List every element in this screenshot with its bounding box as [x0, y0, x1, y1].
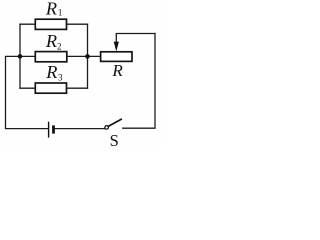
svg-text:2: 2: [57, 42, 62, 52]
svg-text:1: 1: [58, 7, 63, 17]
svg-text:R: R: [45, 62, 57, 82]
svg-text:3: 3: [58, 72, 63, 82]
svg-text:S: S: [110, 131, 119, 150]
svg-text:R: R: [111, 61, 123, 80]
svg-text:R: R: [45, 0, 57, 19]
svg-text:R: R: [45, 31, 57, 51]
